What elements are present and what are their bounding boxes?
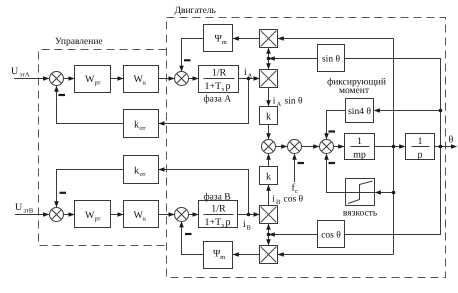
svg-text:W: W [85,74,95,85]
svg-text:рт: рт [95,216,101,223]
svg-text:p: p [418,150,423,161]
svg-text:фаза А: фаза А [204,95,232,105]
svg-text:cos θ: cos θ [321,231,341,241]
svg-text:вязкость: вязкость [343,209,378,219]
svg-text:W: W [134,210,144,221]
svg-text:k: k [134,166,139,177]
svg-text:i: i [273,97,276,107]
svg-text:k: k [266,172,271,183]
svg-text:k: k [134,120,139,131]
svg-text:sin θ: sin θ [322,55,340,65]
svg-text:В: В [247,225,252,232]
svg-text:зтВ: зтВ [24,208,34,215]
svg-text:фаза В: фаза В [204,193,231,203]
svg-text:от: от [140,125,146,132]
svg-text:p: p [226,81,231,92]
svg-text:1/R: 1/R [212,68,227,79]
svg-text:U: U [15,202,23,213]
svg-text:1: 1 [418,136,423,147]
svg-text:sin θ: sin θ [285,97,303,107]
svg-text:U: U [11,66,19,77]
svg-text:рт: рт [95,80,101,87]
svg-text:1+T: 1+T [205,81,222,92]
svg-text:зтА: зтА [20,72,30,79]
svg-text:m: m [222,39,227,46]
svg-text:с: с [295,188,298,195]
svg-text:В: В [276,199,281,206]
svg-text:1+T: 1+T [205,217,222,228]
svg-text:sin4 θ: sin4 θ [348,107,371,117]
svg-text:p: p [226,217,231,228]
svg-text:от: от [140,171,146,178]
svg-text:mp: mp [353,150,366,161]
svg-text:i: i [272,195,275,205]
svg-text:W: W [85,210,95,221]
svg-text:W: W [134,74,144,85]
svg-text:1: 1 [357,136,362,147]
svg-text:θ: θ [449,135,454,146]
svg-text:А: А [248,73,253,80]
svg-text:Управление: Управление [55,37,103,47]
svg-text:k: k [266,112,271,123]
svg-text:1/R: 1/R [211,204,226,215]
svg-text:момент: момент [339,86,370,96]
svg-text:э: э [221,222,224,229]
svg-text:э: э [221,86,224,93]
svg-text:Двигатель: Двигатель [175,6,217,16]
svg-text:cos θ: cos θ [284,195,304,205]
svg-text:m: m [220,254,225,261]
svg-text:А: А [277,101,282,108]
